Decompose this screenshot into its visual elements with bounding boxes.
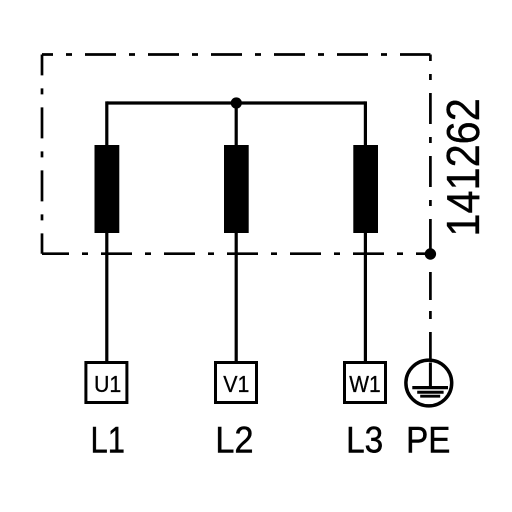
- svg-text:L1: L1: [91, 420, 125, 461]
- svg-text:W1: W1: [349, 371, 380, 397]
- svg-text:L2: L2: [215, 420, 253, 461]
- dash-dot enclosure border top: [42, 53, 430, 56]
- svg-text:PE: PE: [406, 420, 450, 461]
- dash-dot enclosure border right: [429, 55, 432, 254]
- winding L1: [95, 145, 120, 233]
- dash-dot enclosure border left: [41, 55, 44, 254]
- wire branch 2: [235, 103, 238, 362]
- wire branch 1: [105, 101, 108, 361]
- wire branch 3: [364, 101, 367, 361]
- wire top bus: [107, 101, 366, 104]
- dash-dot enclosure border bottom: [42, 252, 430, 255]
- svg-text:V1: V1: [223, 371, 249, 397]
- winding L2: [224, 145, 249, 233]
- wire PE dash-dot drop: [429, 254, 432, 360]
- node PE junction: [425, 248, 436, 259]
- terminal box W1: [345, 363, 386, 403]
- node junction on bus: [231, 97, 242, 108]
- terminal box V1: [216, 363, 257, 403]
- terminal box U1: [86, 363, 127, 403]
- svg-text:L3: L3: [346, 420, 383, 461]
- protective earth symbol PE: [406, 360, 452, 406]
- winding L3: [353, 145, 378, 233]
- svg-text:U1: U1: [94, 371, 121, 397]
- svg-text:141262: 141262: [437, 98, 489, 236]
